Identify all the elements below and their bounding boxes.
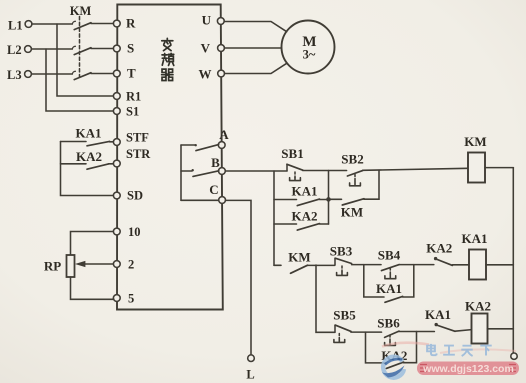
wire L2 to S1 xyxy=(46,49,113,111)
svg-text:C: C xyxy=(209,182,218,197)
wire SB2 to coil KM xyxy=(363,168,468,170)
relay contact KM (seal-in) xyxy=(331,199,380,220)
relay contact KA2 (parallel SB6) xyxy=(366,332,417,369)
wire coil KA1 to rail xyxy=(486,264,513,266)
terminal V xyxy=(218,45,225,52)
svg-text:KA1: KA1 xyxy=(376,281,402,296)
svg-text:3~: 3~ xyxy=(303,48,316,62)
svg-text:SB1: SB1 xyxy=(281,146,303,161)
terminal A xyxy=(218,142,225,149)
svg-text:KA2: KA2 xyxy=(292,209,318,224)
node L3 xyxy=(7,68,31,82)
svg-text:10: 10 xyxy=(128,225,141,239)
watermark logo swirl xyxy=(382,357,405,378)
svg-text:KA2: KA2 xyxy=(465,299,491,314)
terminal SD xyxy=(113,192,120,199)
wire RP bottom to 5 xyxy=(71,277,114,299)
contactor KM pole 1 xyxy=(32,21,114,29)
wire bus to rung2 xyxy=(274,264,281,266)
pushbutton SB2 (NO) xyxy=(347,171,362,186)
label 变频器 (vertical) xyxy=(162,38,174,80)
pushbutton SB1 (NC) xyxy=(287,164,303,180)
pushbutton SB3 (NC) xyxy=(335,258,352,275)
terminal U xyxy=(217,18,224,25)
svg-text:KA1: KA1 xyxy=(425,307,451,322)
svg-text:KA1: KA1 xyxy=(462,231,488,246)
svg-text:2: 2 xyxy=(128,258,134,272)
svg-text:KA1: KA1 xyxy=(76,126,102,141)
terminal T xyxy=(113,70,120,77)
relay contact KA2 (hold) xyxy=(274,209,329,230)
coil KM xyxy=(468,153,485,183)
relay contact KA2 NC xyxy=(434,257,469,266)
potentiometer RP xyxy=(67,255,75,277)
watermark pink swoosh xyxy=(382,343,516,353)
terminal STR xyxy=(113,160,120,167)
terminal C xyxy=(219,197,226,204)
svg-text:L3: L3 xyxy=(7,68,22,82)
svg-text:5: 5 xyxy=(128,292,134,306)
svg-text:KM: KM xyxy=(464,134,486,149)
terminal STF xyxy=(113,139,120,146)
svg-text:RP: RP xyxy=(44,259,61,274)
right rail xyxy=(512,168,514,353)
svg-text:L: L xyxy=(246,368,254,382)
svg-text:B: B xyxy=(211,155,220,170)
svg-text:KM: KM xyxy=(70,4,92,18)
svg-text:SB2: SB2 xyxy=(341,152,363,167)
relay contact KM (rung2) xyxy=(291,265,335,273)
terminal S1 xyxy=(113,108,120,115)
wire V to motor xyxy=(224,47,281,49)
watermark text 电工天下 xyxy=(427,344,492,356)
svg-text:R: R xyxy=(126,16,136,31)
svg-text:KA2: KA2 xyxy=(76,149,102,164)
coil KA2 xyxy=(472,314,488,344)
relay contact KA1 (hold) xyxy=(274,183,327,205)
svg-text:L1: L1 xyxy=(8,19,23,33)
left control bus xyxy=(273,171,275,265)
RP wiper arrow xyxy=(76,261,113,266)
svg-text:SB4: SB4 xyxy=(378,247,401,262)
svg-text:S: S xyxy=(127,41,134,56)
svg-text:V: V xyxy=(201,41,211,56)
rail end node xyxy=(511,353,517,359)
VFD relay contact A xyxy=(181,144,219,151)
svg-text:STR: STR xyxy=(126,147,151,161)
wire L1 to R1 xyxy=(57,24,113,96)
wire SB1 to SB2 xyxy=(303,170,347,172)
node L1 xyxy=(8,19,32,33)
node L2 xyxy=(7,43,31,57)
wire A-B-C bus xyxy=(180,145,182,200)
svg-text:SB5: SB5 xyxy=(333,308,356,323)
svg-text:A: A xyxy=(219,127,229,142)
wire rung2 to rung3 xyxy=(316,265,335,332)
terminal 5 xyxy=(113,295,120,302)
coil KA1 xyxy=(469,250,486,280)
contactor KM pole 3 xyxy=(31,71,113,79)
watermark url band xyxy=(417,362,519,376)
inverter box 变频器 xyxy=(117,5,223,310)
svg-text:L2: L2 xyxy=(7,43,22,57)
wire 10 to RP top xyxy=(71,232,114,256)
svg-text:U: U xyxy=(202,13,212,28)
terminal B xyxy=(219,168,226,175)
KM linkage (dashed) xyxy=(79,17,81,78)
relay contact KA2 to STR xyxy=(61,164,114,169)
wire coil KA2 to rail xyxy=(488,328,514,330)
pushbutton SB4 (NO) xyxy=(382,265,400,279)
node1 vertical xyxy=(328,171,330,225)
node L xyxy=(246,355,254,382)
svg-text:R1: R1 xyxy=(126,90,141,104)
wire coil KM to rail xyxy=(485,167,513,169)
wire bus to C xyxy=(181,199,219,201)
pushbutton SB5 (NC) xyxy=(334,325,351,342)
wire bus to SD xyxy=(61,142,114,196)
svg-text:SB6: SB6 xyxy=(377,316,400,331)
wire SB5 to SB6 xyxy=(351,331,382,333)
terminal 2 xyxy=(113,261,120,268)
pushbutton SB6 (NO) xyxy=(385,331,399,345)
terminal S xyxy=(113,45,120,52)
svg-text:KA2: KA2 xyxy=(426,241,452,256)
relay contact KA1 to STF xyxy=(61,141,114,145)
relay contact KA1 NC xyxy=(435,323,472,331)
wire C to L xyxy=(225,200,251,354)
svg-text:S1: S1 xyxy=(126,105,139,119)
wire U to motor xyxy=(224,22,287,32)
terminal W xyxy=(218,70,225,77)
svg-text:STF: STF xyxy=(126,131,149,145)
VFD relay contact B xyxy=(181,169,219,176)
terminal R1 xyxy=(113,93,120,100)
svg-text:KA1: KA1 xyxy=(292,183,318,198)
svg-text:SB3: SB3 xyxy=(330,243,353,258)
relay contact KA1 (parallel SB4) xyxy=(364,265,414,303)
svg-text:KM: KM xyxy=(288,249,310,264)
terminal R xyxy=(113,20,120,27)
wire SB6 to KA1 contact xyxy=(399,331,434,333)
motor M 3~ xyxy=(282,21,335,74)
terminal 10 xyxy=(113,228,120,235)
junction dot node1 xyxy=(326,197,331,202)
contactor KM pole 2 xyxy=(31,46,113,54)
svg-text:SD: SD xyxy=(127,189,143,203)
wire W to motor xyxy=(225,63,287,73)
wire SB3 to SB4 xyxy=(352,264,381,266)
svg-text:T: T xyxy=(127,66,136,81)
svg-text:KM: KM xyxy=(341,205,363,220)
node2 vertical xyxy=(378,170,380,199)
svg-text:W: W xyxy=(199,67,212,82)
wire B to control rail xyxy=(225,170,287,172)
svg-text:www.dgjs123.com: www.dgjs123.com xyxy=(422,363,514,375)
wire SB4 to KA2 contact xyxy=(399,264,434,266)
